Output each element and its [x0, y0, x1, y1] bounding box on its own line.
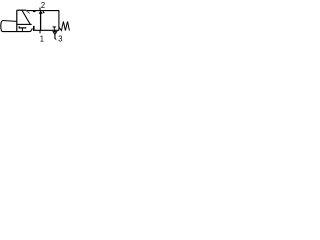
blocked port T bottom stem — [53, 27, 55, 30]
valve left edge top stub — [33, 10, 36, 12]
exhaust tail with hook — [55, 35, 56, 40]
pedal anchor left arc and baseline — [1, 21, 33, 32]
pedal foot line — [3, 20, 17, 23]
valve left edge lower part — [33, 26, 35, 30]
top link line (pedal side) — [17, 9, 26, 11]
svg-text:2: 2 — [41, 1, 46, 11]
port 1 stub — [39, 30, 41, 33]
flow arrow shaft — [40, 13, 42, 30]
blocked port T remnant top — [43, 10, 44, 12]
spring — [59, 22, 70, 31]
port 2 stub — [39, 8, 41, 11]
port 3 stub — [54, 30, 56, 31]
pedal bar — [16, 10, 18, 31]
pneumatic 3/2-way pedal valve schematic — [0, 0, 73, 43]
valve bottom edge — [33, 29, 59, 31]
exhaust triangle — [53, 32, 57, 35]
flow arrow head — [39, 11, 43, 14]
valve right edge — [58, 10, 60, 30]
svg-text:1: 1 — [40, 34, 45, 43]
detent stem — [21, 28, 23, 32]
detent crossbar — [19, 26, 26, 28]
valve top edge — [26, 10, 59, 12]
pedal stem — [17, 23, 32, 25]
link diagonal D1 — [26, 10, 30, 13]
link diagonal D2 — [22, 10, 30, 24]
blocked port T bottom crossbar — [53, 26, 57, 28]
svg-text:3: 3 — [58, 34, 63, 43]
